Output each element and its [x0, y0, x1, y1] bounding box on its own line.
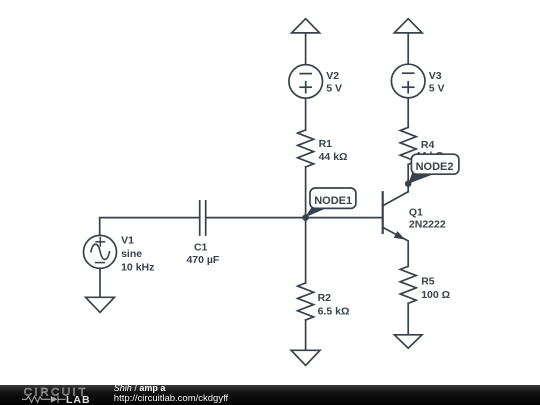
svg-text:Shih / amp a: Shih / amp a [114, 383, 167, 393]
resistor R4 [400, 127, 416, 164]
svg-text:44 kΩ: 44 kΩ [319, 151, 348, 163]
label R1 [319, 138, 348, 163]
power flag VCC for V3 [394, 19, 422, 33]
voltage source V1 sine [84, 235, 117, 268]
node A junction dot [302, 214, 309, 221]
svg-text:5 V: 5 V [429, 83, 445, 95]
ground [394, 335, 422, 348]
svg-text:V3: V3 [429, 70, 442, 82]
wire [407, 98, 409, 128]
voltage source V3 [391, 64, 425, 98]
label R2 [318, 292, 350, 318]
svg-text:470 µF: 470 µF [186, 254, 219, 266]
wire [407, 164, 409, 191]
transistor Q1 [383, 192, 409, 267]
node NODE2 flag [408, 154, 459, 184]
label R5 [421, 276, 450, 301]
svg-text:C1: C1 [194, 241, 208, 253]
wire [206, 217, 383, 219]
svg-text:NODE2: NODE2 [416, 161, 454, 173]
svg-text:2N2222: 2N2222 [409, 219, 446, 231]
capacitor C1 [200, 201, 206, 235]
node NODE1 flag [305, 188, 356, 217]
svg-text:V1: V1 [121, 235, 134, 247]
resistor R2 [298, 283, 314, 320]
label R4 (value hidden behind NODE2) [415, 139, 444, 162]
svg-text:100 Ω: 100 Ω [421, 289, 450, 301]
svg-text:Q1: Q1 [409, 206, 423, 218]
label V2 [326, 70, 342, 94]
wire [305, 320, 307, 350]
label C1 [186, 241, 219, 266]
wire [305, 98, 307, 130]
svg-text:R5: R5 [421, 276, 435, 288]
svg-text:10 kHz: 10 kHz [121, 261, 154, 273]
label Q1 [409, 206, 446, 230]
wire V1 to C1 to Q1 base [100, 218, 200, 236]
wire [305, 167, 307, 218]
power flag VCC for V2 [292, 19, 320, 33]
wire [99, 268, 101, 297]
svg-text:sine: sine [121, 248, 142, 260]
ground [291, 350, 320, 365]
logo resistor-diode glyph [22, 396, 66, 403]
svg-text:R2: R2 [318, 292, 332, 304]
svg-text:http://circuitlab.com/ckdgyff: http://circuitlab.com/ckdgyff [114, 393, 229, 404]
svg-text:5 V: 5 V [326, 83, 342, 95]
voltage source V2 [289, 65, 323, 99]
ground [86, 297, 115, 312]
label V3 [429, 70, 445, 94]
wire [305, 218, 307, 283]
svg-text:6.5 kΩ: 6.5 kΩ [318, 306, 350, 318]
svg-text:NODE1: NODE1 [314, 195, 352, 207]
resistor R5 [400, 266, 416, 303]
wire [305, 33, 307, 65]
wire [407, 303, 409, 335]
svg-text:R1: R1 [319, 138, 333, 150]
wire [407, 33, 409, 64]
label V1 [121, 235, 154, 274]
node B junction dot [405, 180, 412, 187]
resistor R1 [298, 130, 314, 167]
svg-text:LAB: LAB [66, 394, 91, 405]
svg-text:V2: V2 [326, 70, 339, 82]
